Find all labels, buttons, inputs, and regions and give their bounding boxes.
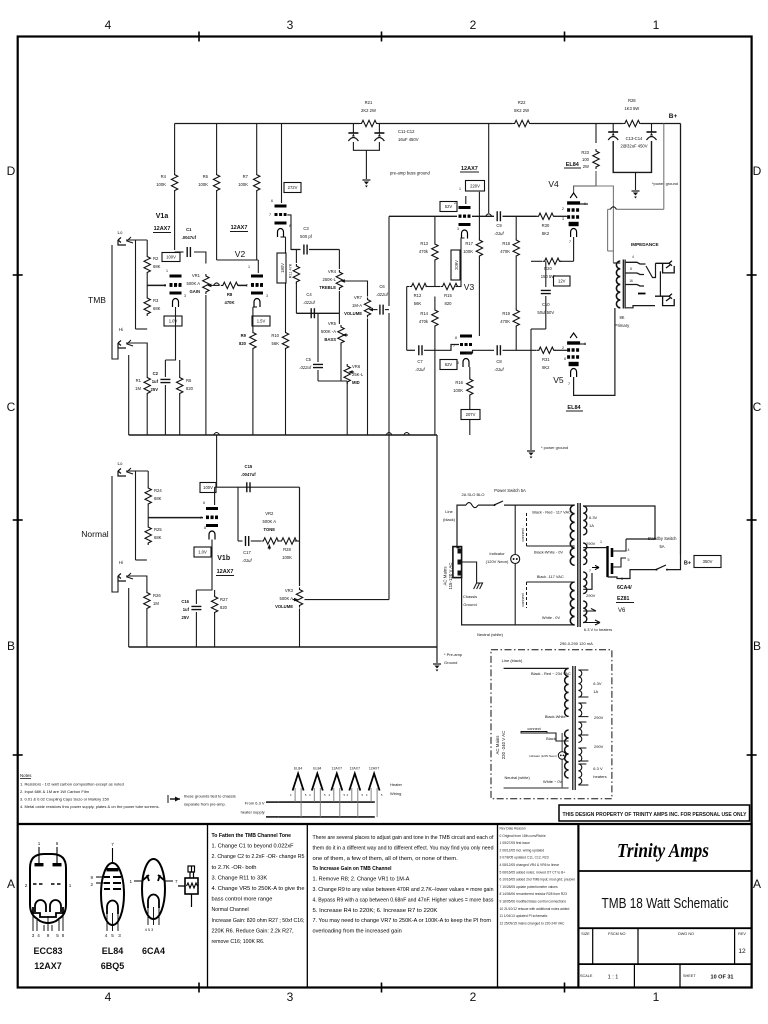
wire V2b out to C3 node: [287, 215, 295, 250]
svg-text:1: 1: [653, 990, 660, 1004]
export secondary stubs: [578, 670, 588, 785]
svg-text:0 Original from 18th.com/Ric: 0 Original from 18th.com/Richie: [500, 834, 546, 838]
svg-text:68K: 68K: [154, 535, 162, 540]
svg-text:1: 1: [166, 269, 168, 273]
svg-text:100K: 100K: [198, 182, 208, 187]
wire R4 to V1a plate node: [174, 193, 176, 250]
speaker jack J1: [656, 261, 675, 273]
svg-text:R4: R4: [161, 174, 167, 179]
wire PI grid feed upper: [388, 216, 390, 306]
svg-text:Chassis: Chassis: [463, 594, 477, 599]
wire shield join: [136, 559, 147, 561]
jack Normal Hi: [118, 573, 133, 581]
tube diagram ECC83: [30, 854, 66, 884]
fuse: [466, 503, 478, 508]
wire to C2: [164, 360, 166, 377]
svg-text:290V: 290V: [586, 593, 596, 598]
wire heater feed 2: [266, 816, 279, 818]
svg-text:290-0-290 120 mA: 290-0-290 120 mA: [560, 641, 593, 646]
wire node: [215, 486, 217, 488]
svg-text:Increase Gain: 820 ohm R27 ; 5: Increase Gain: 820 ohm R27 ; 50xf C16;: [212, 918, 305, 924]
wire VR7 wiper to C6: [375, 309, 378, 311]
svg-text:12V: 12V: [558, 279, 566, 284]
svg-text:3. Change R9 to any value bet: 3. Change R9 to any value between 470R a…: [313, 887, 494, 893]
wire V3a cathode down: [461, 238, 465, 287]
svg-text:A: A: [753, 877, 761, 891]
capacitor C8: [497, 345, 500, 355]
wire R2 top lead: [146, 240, 148, 255]
none: [530, 261, 532, 329]
svg-text:R18: R18: [502, 241, 510, 246]
resistor R10: [282, 331, 288, 351]
common tap dash: [638, 293, 646, 295]
svg-text:B+: B+: [684, 561, 691, 567]
wire grid row to R18: [515, 216, 517, 238]
wire rail to R4: [174, 124, 176, 173]
resistor R3: [144, 296, 150, 316]
svg-text:Black -117 VAC: Black -117 VAC: [537, 574, 564, 579]
svg-text:5A: 5A: [659, 544, 664, 549]
svg-text:12AX7: 12AX7: [332, 767, 343, 771]
OT core: [622, 260, 624, 309]
wire V1b cathode down: [196, 540, 212, 591]
capacitor C12: [374, 132, 384, 134]
svg-text:Black: Black: [546, 736, 556, 741]
svg-text:R26: R26: [153, 593, 161, 598]
svg-text:1. Resistors - 1/2 watt carbon: 1. Resistors - 1/2 watt carbon compositi…: [20, 782, 124, 787]
svg-text:4: 4: [105, 18, 112, 32]
wire rail to R6: [216, 124, 218, 173]
svg-text:A: A: [7, 877, 15, 891]
PT2 secondary windings: [578, 670, 581, 697]
wire C7 row left: [407, 349, 415, 351]
svg-text:VOLUME: VOLUME: [275, 604, 293, 609]
wire V3a grid row right: [472, 215, 494, 217]
wire plate node to R17: [478, 192, 480, 238]
svg-text:9: 9: [90, 875, 93, 880]
svg-text:these grounds tied to chassis: these grounds tied to chassis: [184, 794, 236, 799]
svg-text:5: 5: [56, 933, 59, 938]
hump rail drop over grid row: [486, 214, 492, 217]
svg-text:820: 820: [186, 386, 194, 391]
svg-text:C6: C6: [379, 284, 385, 289]
wire fuse to switch: [478, 504, 494, 506]
svg-text:470K: 470K: [224, 300, 234, 305]
svg-text:207V: 207V: [466, 412, 476, 417]
wire C14 top lead: [651, 124, 653, 133]
svg-text:Normal Channel: Normal Channel: [212, 907, 249, 913]
wire to R10: [285, 237, 287, 331]
svg-text:AC Mains: AC Mains: [495, 735, 500, 755]
resistor R27: [211, 595, 217, 615]
hump R6-drop over grid wire: [214, 283, 220, 286]
resistor R9: [250, 331, 256, 351]
svg-text:8K2: 8K2: [542, 365, 550, 370]
wire down to C17 row: [237, 487, 239, 541]
svg-text:From 6.3 V: From 6.3 V: [245, 801, 265, 806]
svg-text:500 pf: 500 pf: [300, 234, 312, 239]
svg-text:R31: R31: [542, 357, 550, 362]
svg-text:C3: C3: [303, 226, 309, 231]
wire VR5 top: [338, 313, 340, 324]
power transformer PT1 primary winding: [570, 505, 574, 565]
wire mid to ground bus: [346, 381, 348, 435]
svg-text:heater supply: heater supply: [241, 810, 265, 815]
title divider 3: [578, 963, 751, 965]
svg-text:R30: R30: [542, 223, 550, 228]
svg-text:52V: 52V: [445, 204, 453, 209]
voltage box 180V: [277, 253, 286, 283]
resistor R2: [144, 255, 150, 275]
tube V1b triode: [206, 509, 218, 540]
svg-text:290V: 290V: [594, 744, 604, 749]
svg-text:6 10/16/05 added 2nd TMB in: 6 10/16/05 added 2nd TMB input; mod grid…: [500, 878, 576, 882]
title col line: [633, 964, 635, 987]
svg-text:them do it in a different way: them do it in a different way and to dif…: [313, 845, 494, 851]
svg-text:6: 6: [56, 841, 59, 846]
wire VR5 bottom: [340, 344, 342, 381]
svg-text:Standby Switch: Standby Switch: [648, 536, 678, 541]
svg-text:2K2 2W: 2K2 2W: [361, 108, 376, 113]
wire grid row to R13: [434, 216, 436, 242]
wire jack ground to bus: [128, 355, 130, 435]
svg-text:Black - Red - 117 VAC: Black - Red - 117 VAC: [532, 510, 571, 515]
capacitor C7: [419, 345, 422, 355]
underline V5 EL84: [566, 410, 583, 412]
svg-text:4: 4: [632, 255, 634, 259]
svg-text:Notes: Notes: [20, 773, 32, 778]
wire C7 to V3b grid: [424, 345, 459, 351]
wire C11 top lead: [352, 124, 354, 134]
wire indicator bottom: [514, 564, 516, 625]
svg-text:9: 9: [47, 933, 50, 938]
svg-text:209V: 209V: [454, 260, 459, 270]
wire V1a cathode down: [165, 307, 175, 360]
heater symbol EL84 1: [293, 774, 304, 791]
resistor R21: [360, 120, 379, 126]
wire C13-C14 bottom join: [613, 141, 651, 172]
svg-text:220 -240 V AC: 220 -240 V AC: [501, 731, 506, 760]
underline V2 12AX7: [230, 231, 248, 233]
frame tick: [13, 274, 23, 276]
wire R9 to bus: [252, 351, 254, 436]
wire to R9: [252, 307, 254, 331]
svg-text:500K -A: 500K -A: [321, 329, 336, 334]
wire CT drop: [607, 209, 609, 251]
frame tick: [381, 983, 383, 993]
wire OT tap 16ohm: [626, 285, 644, 287]
wire V3b cathode to C8: [466, 350, 494, 353]
svg-text:* Pre-amp: * Pre-amp: [444, 652, 463, 657]
svg-text:220V: 220V: [470, 183, 480, 188]
wire VR7 bottom to bus: [367, 319, 369, 436]
svg-text:EL84: EL84: [313, 767, 321, 771]
grid dots V1b: [206, 516, 209, 519]
svg-text:6BQ5: 6BQ5: [101, 961, 125, 971]
heater arrow taps: [583, 609, 600, 626]
wire C10 bottom: [545, 296, 547, 329]
ECC83 cathode arcs: [35, 900, 61, 912]
title divider 2: [578, 927, 751, 929]
wire rail to V2b plate: [281, 124, 283, 204]
wire R11 bottom: [295, 282, 297, 313]
svg-text:25V: 25V: [182, 615, 190, 620]
resistor R1: [144, 376, 150, 396]
svg-text:VR4: VR4: [328, 269, 337, 274]
svg-text:R21: R21: [365, 100, 373, 105]
svg-text:(black): (black): [443, 517, 456, 522]
wire pre-amp ground bus: [129, 646, 437, 648]
svg-text:R7: R7: [243, 174, 249, 179]
PT1 secondary windings: [583, 506, 587, 535]
wire OT tap 4ohm: [626, 262, 646, 264]
wire R6 down: [216, 193, 218, 260]
svg-text:R19: R19: [502, 311, 510, 316]
wire C8 to R31: [503, 349, 537, 351]
svg-text:272V: 272V: [288, 185, 298, 190]
svg-text:470K: 470K: [500, 249, 510, 254]
wire PT tap black-white: [527, 545, 575, 547]
svg-text:2: 2: [470, 18, 477, 32]
wire C15 row down to VR3: [299, 487, 301, 586]
svg-text:5 08/16/05 added notes; mov: 5 08/16/05 added notes; moved OT CT to B…: [500, 870, 566, 874]
wire V1b plate lead: [214, 487, 216, 505]
wire heater bus 1: [279, 801, 375, 803]
wire to C17: [238, 540, 243, 542]
svg-text:7: 7: [175, 879, 178, 884]
heater symbol EL84 2: [312, 774, 323, 791]
svg-text:2: 2: [562, 346, 564, 350]
svg-text:C8: C8: [496, 359, 502, 364]
svg-text:3: 3: [118, 933, 121, 938]
svg-text:100V: 100V: [203, 485, 213, 490]
svg-text:8K2 2W: 8K2 2W: [514, 108, 529, 113]
svg-text:V3: V3: [464, 282, 475, 292]
underline V3 12AX7: [460, 171, 479, 173]
svg-text:R5: R5: [186, 378, 192, 383]
tube diagram 6CA4: [142, 859, 165, 919]
wire C3 input node: [291, 249, 301, 251]
capacitor C15: [247, 482, 250, 492]
svg-text:V5: V5: [553, 375, 564, 385]
svg-text:VR5: VR5: [328, 321, 337, 326]
capacitor C10: [541, 290, 551, 293]
svg-text:THIS DESIGN PROPERTY OF TRINIT: THIS DESIGN PROPERTY OF TRINITY AMPS INC…: [563, 812, 747, 818]
underline V4 EL84: [564, 167, 581, 169]
svg-text:820: 820: [220, 605, 228, 610]
wire R12 down to C7 row: [406, 287, 408, 351]
wire neutral white: [462, 573, 575, 625]
svg-text:V4: V4: [548, 179, 559, 189]
svg-text:connect: connect: [521, 592, 525, 606]
frame tick: [13, 754, 23, 756]
svg-text:8: 8: [630, 267, 632, 271]
svg-text:V1b: V1b: [217, 555, 230, 562]
svg-text:4: 4: [105, 933, 108, 938]
svg-text:820: 820: [445, 301, 453, 306]
resistor R6: [213, 173, 219, 193]
svg-text:1: 1: [459, 187, 461, 191]
svg-text:.0047uf: .0047uf: [241, 472, 256, 477]
standby switch: [656, 565, 666, 570]
svg-text:2: 2: [90, 882, 93, 887]
svg-text:500K A: 500K A: [263, 519, 277, 524]
tube V6 rectifier 6CA4: [592, 546, 612, 577]
wire standby to B+: [667, 555, 681, 570]
svg-text:1M: 1M: [153, 601, 159, 606]
svg-text:heaters: heaters: [593, 774, 606, 779]
resistor R14: [432, 308, 438, 328]
svg-text:115-120 V AC: 115-120 V AC: [448, 562, 453, 589]
ground pre-amp buss: [362, 179, 370, 181]
none: [216, 275, 218, 282]
svg-text:Power Switch 5A: Power Switch 5A: [494, 488, 526, 493]
svg-text:R22: R22: [518, 100, 526, 105]
wire impedance wiper: [646, 263, 656, 277]
wire R19 to C8 row: [515, 328, 517, 350]
svg-text:2: 2: [562, 207, 564, 211]
wire V2a cathode down: [253, 306, 257, 308]
wire R16 bottom: [469, 397, 471, 409]
svg-text:AC Mains: AC Mains: [442, 566, 447, 586]
frame tick: [564, 983, 566, 993]
wire 290V to V6 pin1: [583, 547, 597, 549]
svg-text:C5: C5: [306, 357, 312, 362]
svg-text:R17: R17: [465, 241, 473, 246]
svg-text:3: 3: [287, 18, 294, 32]
resistor R17: [476, 238, 482, 258]
svg-text:470k: 470k: [419, 249, 429, 254]
wire export line: [504, 667, 569, 669]
svg-text:2A SLO BLO: 2A SLO BLO: [462, 492, 485, 497]
neon indicator export: [558, 752, 566, 760]
wire VR1 wiper to R8: [213, 284, 220, 286]
svg-text:R13: R13: [420, 241, 428, 246]
capacitor C17: [246, 536, 249, 546]
svg-text:8 14/05/06 renumbered resis: 8 14/05/06 renumbered resistor R28 from …: [500, 892, 568, 896]
wire C16 to bus: [195, 612, 197, 647]
wire to R1: [146, 366, 148, 376]
tube V4 EL84: [567, 193, 580, 237]
wire R31 to V5 grid: [555, 349, 566, 351]
capacitor C1: [187, 247, 190, 257]
svg-text:6.3 V: 6.3 V: [593, 766, 603, 771]
wire rail to R7: [256, 124, 258, 173]
svg-text:C11-C12: C11-C12: [398, 129, 415, 134]
svg-text:220K R6. Reduce Gain: 2.2k R27: 220K R6. Reduce Gain: 2.2k R27,: [212, 928, 294, 934]
voltage box 62V: [440, 360, 457, 370]
svg-text:1K3 5W: 1K3 5W: [624, 106, 639, 111]
wire Hi tip to R1: [126, 343, 147, 366]
resistor R28 pot row: [280, 538, 299, 544]
capacitor C2: [160, 379, 170, 382]
svg-text:180V: 180V: [280, 263, 285, 273]
wire B+ rail segment 4: [641, 123, 681, 125]
wire B+ rail segment 3: [531, 123, 623, 125]
grid dots V3a: [459, 215, 462, 218]
wire to C16: [195, 590, 197, 604]
svg-text:Black-White: Black-White: [545, 714, 566, 719]
svg-text:1: 1: [248, 265, 250, 269]
wire to R27: [214, 590, 216, 595]
svg-text:B: B: [7, 639, 15, 653]
potentiometer VR7 volume: [364, 298, 370, 318]
svg-text:SCALE: SCALE: [580, 974, 593, 978]
title col line: [734, 928, 736, 964]
wire plate to C1: [175, 251, 184, 253]
svg-text:1uf: 1uf: [183, 607, 190, 612]
svg-text:4. Bypass R9 with a cap betwe: 4. Bypass R9 with a cap between 0.68nF a…: [313, 897, 494, 903]
wire R2-R3 junction: [146, 275, 148, 297]
svg-text:EZ81: EZ81: [617, 596, 630, 602]
svg-text:B+: B+: [669, 113, 678, 120]
wire VR3 wiper to PI feed: [305, 599, 390, 601]
svg-text:R24: R24: [154, 488, 162, 493]
svg-text:C4: C4: [306, 292, 312, 297]
wire grid stub V4: [566, 215, 567, 217]
wire switch to PT: [504, 504, 575, 506]
svg-text:C7: C7: [417, 359, 423, 364]
svg-text:6: 6: [271, 199, 273, 203]
wire R11 top: [295, 250, 297, 264]
svg-text:25V: 25V: [151, 387, 159, 392]
svg-text:.01uf: .01uf: [494, 231, 504, 236]
svg-text:*power ground: *power ground: [652, 181, 678, 186]
svg-text:2W: 2W: [583, 164, 589, 169]
svg-text:5. Increase R4 to 220K; 6.: 5. Increase R4 to 220K; 6. Increase R7 t…: [313, 908, 439, 914]
wire B+ rail segment 2: [378, 123, 513, 125]
svg-text:R3: R3: [153, 298, 159, 303]
svg-text:VR7: VR7: [354, 295, 363, 300]
svg-text:2: 2: [454, 201, 456, 205]
svg-text:C16: C16: [181, 599, 189, 604]
svg-text:250K-L: 250K-L: [322, 277, 336, 282]
svg-text:820: 820: [239, 341, 247, 346]
svg-text:R15: R15: [444, 293, 452, 298]
svg-text:1. Change C1 to beyond 0.022x: 1. Change C1 to beyond 0.022xF: [212, 844, 295, 850]
wire R8 to V2a grid: [238, 284, 247, 286]
tube V3a triode: [459, 208, 471, 239]
wire treble bottom: [338, 291, 340, 313]
wire OT CT feed: [616, 208, 663, 210]
wire C4 row: [296, 312, 339, 314]
svg-text:V6: V6: [618, 608, 626, 614]
svg-text:R8: R8: [227, 292, 233, 297]
svg-text:C17: C17: [243, 550, 251, 555]
wire indicator export bottom: [561, 759, 563, 788]
svg-text:4 08/12/05 changed VR4 & VR: 4 08/12/05 changed VR4 & VR6 to linear: [500, 863, 560, 867]
resistor R16: [467, 377, 473, 397]
wire R1 to bus: [146, 396, 148, 436]
wire V3a grid row left: [389, 215, 457, 217]
potentiometer VR5 bass: [338, 325, 344, 345]
wire R12-R15: [426, 286, 441, 288]
wire R20 to cathode: [560, 260, 574, 262]
svg-text:12 25/09/15 mains changed to: 12 25/09/15 mains changed to 220-240 VAC: [500, 921, 565, 925]
svg-text:EL84: EL84: [294, 767, 302, 771]
svg-text:TMB 18 Watt Schematic: TMB 18 Watt Schematic: [602, 895, 729, 912]
ground power amp: [527, 450, 535, 452]
frame tick: [381, 32, 383, 42]
svg-text:BASS: BASS: [324, 337, 336, 342]
svg-text:12AX7: 12AX7: [217, 569, 234, 575]
svg-text:GAIN: GAIN: [190, 289, 200, 294]
svg-text:EL84: EL84: [567, 405, 581, 411]
capacitor C6: [380, 305, 383, 315]
svg-text:Heater: Heater: [390, 782, 403, 787]
svg-text:12AX7: 12AX7: [350, 767, 361, 771]
svg-text:7: 7: [568, 382, 570, 386]
